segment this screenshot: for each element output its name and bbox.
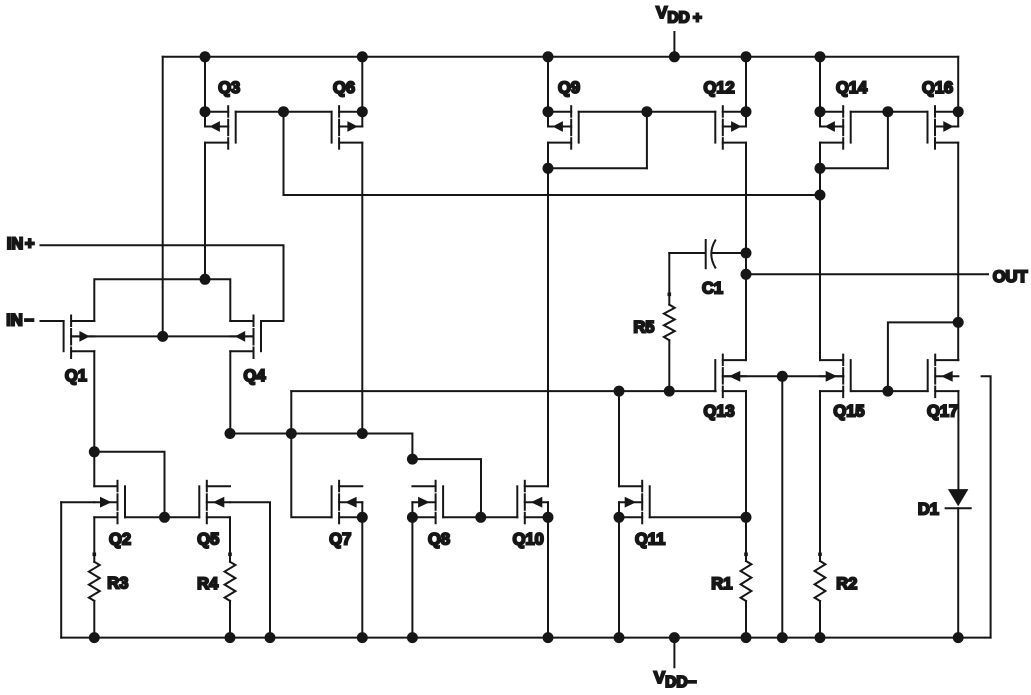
svg-text:Q16: Q16 [922, 79, 953, 97]
wire OUT lead [746, 273, 988, 275]
svg-text:IN−: IN− [6, 312, 34, 330]
node Q2/Q5 gates [159, 512, 170, 523]
node rail-Q14 [815, 51, 826, 62]
wire Q11 gate wire [650, 516, 746, 518]
wire Q6 source to rail [361, 57, 363, 112]
wire Q2 gate link [94, 452, 164, 518]
svg-text:OUT: OUT [993, 268, 1028, 286]
transistor Q9 [548, 106, 579, 149]
wire VDD- stub [673, 638, 675, 668]
transistor Q11 [619, 481, 650, 524]
wire Q14 source to rail [819, 57, 821, 112]
wire Q1-Q4 body line [71, 335, 253, 337]
node Q9/Q12 gates [641, 106, 652, 117]
wire Q17 body ext [982, 376, 991, 637]
wire Q14-Q16 gate bus [851, 111, 928, 113]
label C1 [702, 279, 723, 297]
wire Q2-Q5 gate bus [125, 516, 199, 518]
node Q10 source [543, 512, 554, 523]
node Q11 drain [614, 386, 625, 397]
resistor R2 [815, 391, 826, 637]
transistor Q16 [928, 106, 959, 149]
node Q14 drain tie [815, 163, 826, 174]
label R2 [836, 575, 857, 593]
wire C1 left lead [669, 252, 704, 254]
wire Q9 source to rail [547, 57, 549, 112]
node rail body riser [777, 632, 788, 643]
transistor Q4 [230, 316, 261, 359]
wire Q3-Q6 gate bus [236, 111, 332, 113]
wire Q16-Q17 drain tie [957, 322, 959, 360]
svg-text:IN+: IN+ [7, 235, 35, 253]
node Q9 drain tie [543, 163, 554, 174]
wire Q3/Q6 gate riser [283, 112, 285, 195]
node rail Q7 [357, 632, 368, 643]
node Q16/Q17 drains [953, 317, 964, 328]
svg-text:R4: R4 [197, 575, 219, 593]
resistor R3 [89, 517, 100, 637]
wire Q16 drain drop [957, 143, 959, 323]
node rail-Q9 [543, 51, 554, 62]
wire Q3 source to rail [204, 57, 206, 112]
label Q4 [244, 367, 267, 385]
label VDD- [654, 668, 697, 691]
node OUT tap [741, 269, 752, 280]
node A riser [286, 428, 297, 439]
node bias bus end [815, 190, 826, 201]
node Q14 source [815, 106, 826, 117]
label Q3 [218, 79, 240, 97]
svg-text:R1: R1 [711, 575, 732, 593]
node Q8 source [407, 512, 418, 523]
wire Q14 diode tie [820, 167, 888, 169]
wire rail left drop to body line [162, 57, 164, 337]
wire Q7 gate riser [291, 434, 331, 518]
label R4 [197, 575, 219, 593]
node Q9 source [543, 106, 554, 117]
wire Q17 gate link [888, 322, 958, 391]
svg-text:R2: R2 [836, 575, 857, 593]
svg-text:R5: R5 [633, 318, 654, 336]
wire Q3 drain drop [204, 143, 206, 280]
wire Q6 body tie [361, 112, 363, 127]
node rail-Q3 [200, 51, 211, 62]
label Q10 [513, 531, 544, 549]
label IN− [6, 312, 34, 330]
node Q3 source [200, 106, 211, 117]
node rail Q10 [543, 632, 554, 643]
wire node A riser [290, 391, 292, 433]
transistor Q7 [332, 481, 363, 524]
transistor Q6 [332, 106, 363, 149]
svg-text:VDD−: VDD− [654, 668, 697, 691]
wire Q8 body tie [411, 502, 413, 517]
wire body riser to VSS [781, 376, 783, 637]
label Q5 [197, 531, 219, 549]
node rail R3 [89, 632, 100, 643]
label VDD+ [656, 3, 702, 26]
transistor Q13 [715, 355, 746, 398]
wire Q14 drain drop [819, 143, 821, 361]
svg-text:Q13: Q13 [704, 403, 735, 421]
power rail VDD+ (top) [163, 56, 959, 58]
wire node A bus [230, 434, 412, 460]
wire Q14/Q16 gate riser [887, 112, 889, 169]
wire Q2 body stub ext [61, 501, 94, 503]
label OUT [993, 268, 1028, 286]
svg-text:Q4: Q4 [244, 367, 267, 385]
transistor Q14 [820, 106, 851, 149]
wire Q12 drain drop [745, 143, 747, 361]
svg-text:Q11: Q11 [635, 531, 665, 549]
node Q3/Q6 gates [278, 106, 289, 117]
wire gate bias bus [284, 194, 821, 196]
wire Q11 drain riser [618, 391, 620, 486]
wire Q7 source drop [361, 517, 363, 637]
wire IN+ lead [41, 245, 284, 321]
wire Q9-Q12 gate bus [579, 111, 716, 113]
transistor Q2 [94, 481, 125, 524]
wire Q4 drain drop [229, 351, 231, 433]
wire IN- lead [41, 320, 64, 322]
label Q13 [704, 403, 735, 421]
node Q6 drain [357, 428, 368, 439]
node rail VDD- [669, 632, 680, 643]
wire Q17 source lead [957, 391, 959, 489]
resistor R5 [664, 253, 675, 391]
label D1 [918, 500, 939, 518]
wire Q15-Q17 gate bus [851, 390, 928, 392]
wire Q12 source to rail [745, 57, 747, 112]
svg-text:Q5: Q5 [197, 531, 219, 549]
label IN+ [7, 235, 35, 253]
resistor R1 [741, 517, 752, 637]
label Q11 [635, 531, 665, 549]
label Q14 [836, 79, 868, 97]
label R5 [633, 318, 654, 336]
node Q16 source [953, 106, 964, 117]
svg-text:Q3: Q3 [218, 79, 240, 97]
node Q6 source [357, 106, 368, 117]
wire Q3 body tie [204, 112, 206, 127]
svg-text:Q17: Q17 [927, 403, 958, 421]
svg-text:Q14: Q14 [836, 79, 868, 97]
wire Q8 source drop [411, 517, 413, 637]
node rail D1 [953, 632, 964, 643]
transistor Q17 [928, 355, 959, 398]
wire Q10 body tie [547, 502, 549, 517]
capacitor C1 [706, 240, 746, 268]
wire Q8-Q10 gate bus [443, 516, 517, 518]
node Q12 source [741, 106, 752, 117]
wire Q11 body tie [618, 502, 620, 517]
wire Q14 body tie [819, 112, 821, 127]
wire Q13-Q15 body line [723, 375, 843, 377]
node rail-Q6 [357, 51, 368, 62]
transistor Q5 [199, 481, 230, 524]
transistor Q1 [64, 316, 95, 359]
node rail Q8 [407, 632, 418, 643]
transistor Q10 [517, 481, 548, 524]
node rail-VDD+ [669, 51, 680, 62]
transistor Q3 [205, 106, 236, 149]
node rail Q5 body [265, 632, 276, 643]
wire rail right drop to Q16 source [957, 57, 959, 112]
node Q17 gate tie [882, 386, 893, 397]
svg-text:R3: R3 [107, 575, 128, 593]
node C1 right [741, 248, 752, 259]
node Q7 source [357, 512, 368, 523]
label R3 [107, 575, 128, 593]
label Q15 [833, 403, 864, 421]
node Q13 source/R1 [741, 512, 752, 523]
svg-text:D1: D1 [918, 500, 939, 518]
wire Q2 body drop [60, 502, 62, 637]
label Q2 [109, 531, 131, 549]
wire Q1 source up [94, 279, 230, 321]
svg-text:Q2: Q2 [109, 531, 131, 549]
wire Q9/Q12 gate riser [646, 112, 648, 169]
node rail R2 [815, 632, 826, 643]
wire VDD+ stub [673, 32, 675, 57]
svg-text:Q9: Q9 [558, 79, 580, 97]
wire Q9 diode tie [548, 167, 647, 169]
svg-text:Q7: Q7 [329, 531, 351, 549]
node Q14/Q16 gates [882, 106, 893, 117]
node Q8/Q10 gates [475, 512, 486, 523]
wire Q10 source drop [547, 517, 549, 637]
diode D1 [946, 489, 971, 637]
label Q16 [922, 79, 953, 97]
wire Q9 body tie [547, 112, 549, 127]
svg-text:VDD +: VDD + [656, 3, 702, 26]
node Q8 drain [407, 454, 418, 465]
resistor R4 [225, 517, 236, 637]
wire Q5 body ext [230, 502, 270, 637]
power rail VDD- (bottom) [61, 637, 990, 639]
node rail-Q12 [741, 51, 752, 62]
svg-text:Q8: Q8 [428, 531, 450, 549]
svg-text:Q12: Q12 [704, 79, 735, 97]
wire Q1 drain drop [93, 351, 95, 486]
wire second stage bus [291, 390, 715, 392]
node body line [157, 331, 168, 342]
label Q8 [428, 531, 450, 549]
transistor Q8 [412, 481, 443, 524]
svg-text:Q6: Q6 [333, 79, 355, 97]
node Q11 source [614, 512, 625, 523]
svg-text:Q10: Q10 [513, 531, 544, 549]
wire Q16 body tie [957, 112, 959, 127]
node rail R1 [741, 632, 752, 643]
transistor Q15 [820, 355, 851, 398]
label Q17 [927, 403, 958, 421]
wire Q7 body tie [361, 502, 363, 517]
wire Q9 drain drop [547, 143, 549, 487]
wire Q8 diode link [412, 459, 481, 517]
svg-text:Q1: Q1 [65, 367, 87, 385]
node Q1/Q2 drains [89, 446, 100, 457]
wire Q6 drain drop [361, 143, 363, 434]
transistor Q12 [715, 106, 746, 149]
label Q9 [558, 79, 580, 97]
svg-text:Q15: Q15 [833, 403, 864, 421]
label R1 [711, 575, 732, 593]
label Q6 [333, 79, 355, 97]
label Q12 [704, 79, 735, 97]
node Q3 drain [200, 274, 211, 285]
node Q13/Q15 body [777, 371, 788, 382]
node rail R4 [225, 632, 236, 643]
wire Q11 source drop [618, 517, 620, 637]
node rail Q11 [614, 632, 625, 643]
node R5 bottom [664, 386, 675, 397]
node Q4/Q5 drains [225, 428, 236, 439]
svg-text:C1: C1 [702, 279, 723, 297]
label Q7 [329, 531, 351, 549]
label Q1 [65, 367, 87, 385]
wire Q13 source drop [745, 391, 747, 517]
wire Q12 body tie [745, 112, 747, 127]
